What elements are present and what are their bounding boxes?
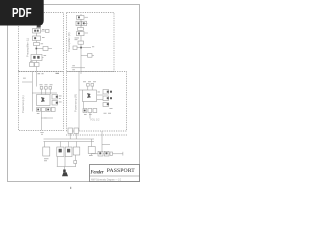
svg-text:PASSPORT: PASSPORT [107,168,135,174]
svg-text:Fender: Fender [91,169,105,175]
svg-text:Preamplifier (R): Preamplifier (R) [67,32,71,52]
svg-text:Poweramp (R): Poweramp (R) [74,94,78,112]
svg-text:PDF: PDF [12,6,32,20]
svg-text:Preamplifier (L): Preamplifier (L) [26,38,30,57]
svg-text:VOL 1/2: VOL 1/2 [90,118,100,122]
svg-text:AMP Schematic Diagram — 1/2: AMP Schematic Diagram — 1/2 [91,177,121,181]
svg-text:Poweramp (L): Poweramp (L) [21,95,25,113]
